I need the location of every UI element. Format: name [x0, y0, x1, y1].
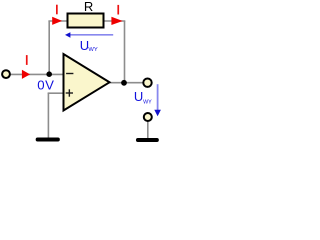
current arrow input: [22, 70, 30, 79]
svg-text:WY: WY: [88, 47, 97, 53]
wire noninverting ground vertical: [47, 93, 49, 138]
op-amp minus pin mark: [66, 73, 73, 75]
wire feedback top left: [48, 20, 67, 22]
wire feedback vertical left: [48, 21, 50, 75]
label I top right: [117, 5, 119, 15]
input terminal: [2, 70, 10, 78]
svg-text:WY: WY: [143, 100, 152, 106]
op-amp U1: [64, 54, 110, 111]
op-amp plus pin mark: [66, 92, 73, 94]
wire output horizontal: [108, 82, 143, 84]
label I input: [26, 55, 28, 65]
label I top left: [56, 5, 58, 15]
wire input horizontal: [11, 73, 64, 75]
current arrow top right: [111, 17, 122, 25]
bottom reference terminal: [144, 113, 152, 121]
output terminal: [143, 79, 151, 87]
wire feedback top right: [104, 20, 125, 22]
voltage arrow Uwy over R (points left): [70, 34, 114, 36]
wire feedback vertical right: [124, 21, 126, 83]
current arrow top left: [52, 17, 62, 25]
svg-text:R: R: [84, 0, 93, 14]
node junction at output: [121, 80, 127, 86]
ground right: [138, 138, 157, 142]
wire noninverting input horizontal: [48, 92, 64, 94]
voltage arrow Uwy output (points down): [157, 84, 159, 110]
node junction at inverting input: [46, 71, 52, 77]
svg-text:0V: 0V: [37, 77, 54, 92]
wire bottom terminal to ground: [147, 122, 149, 139]
resistor R: [68, 14, 104, 28]
ground left: [38, 138, 58, 142]
svg-text:U: U: [134, 89, 143, 104]
